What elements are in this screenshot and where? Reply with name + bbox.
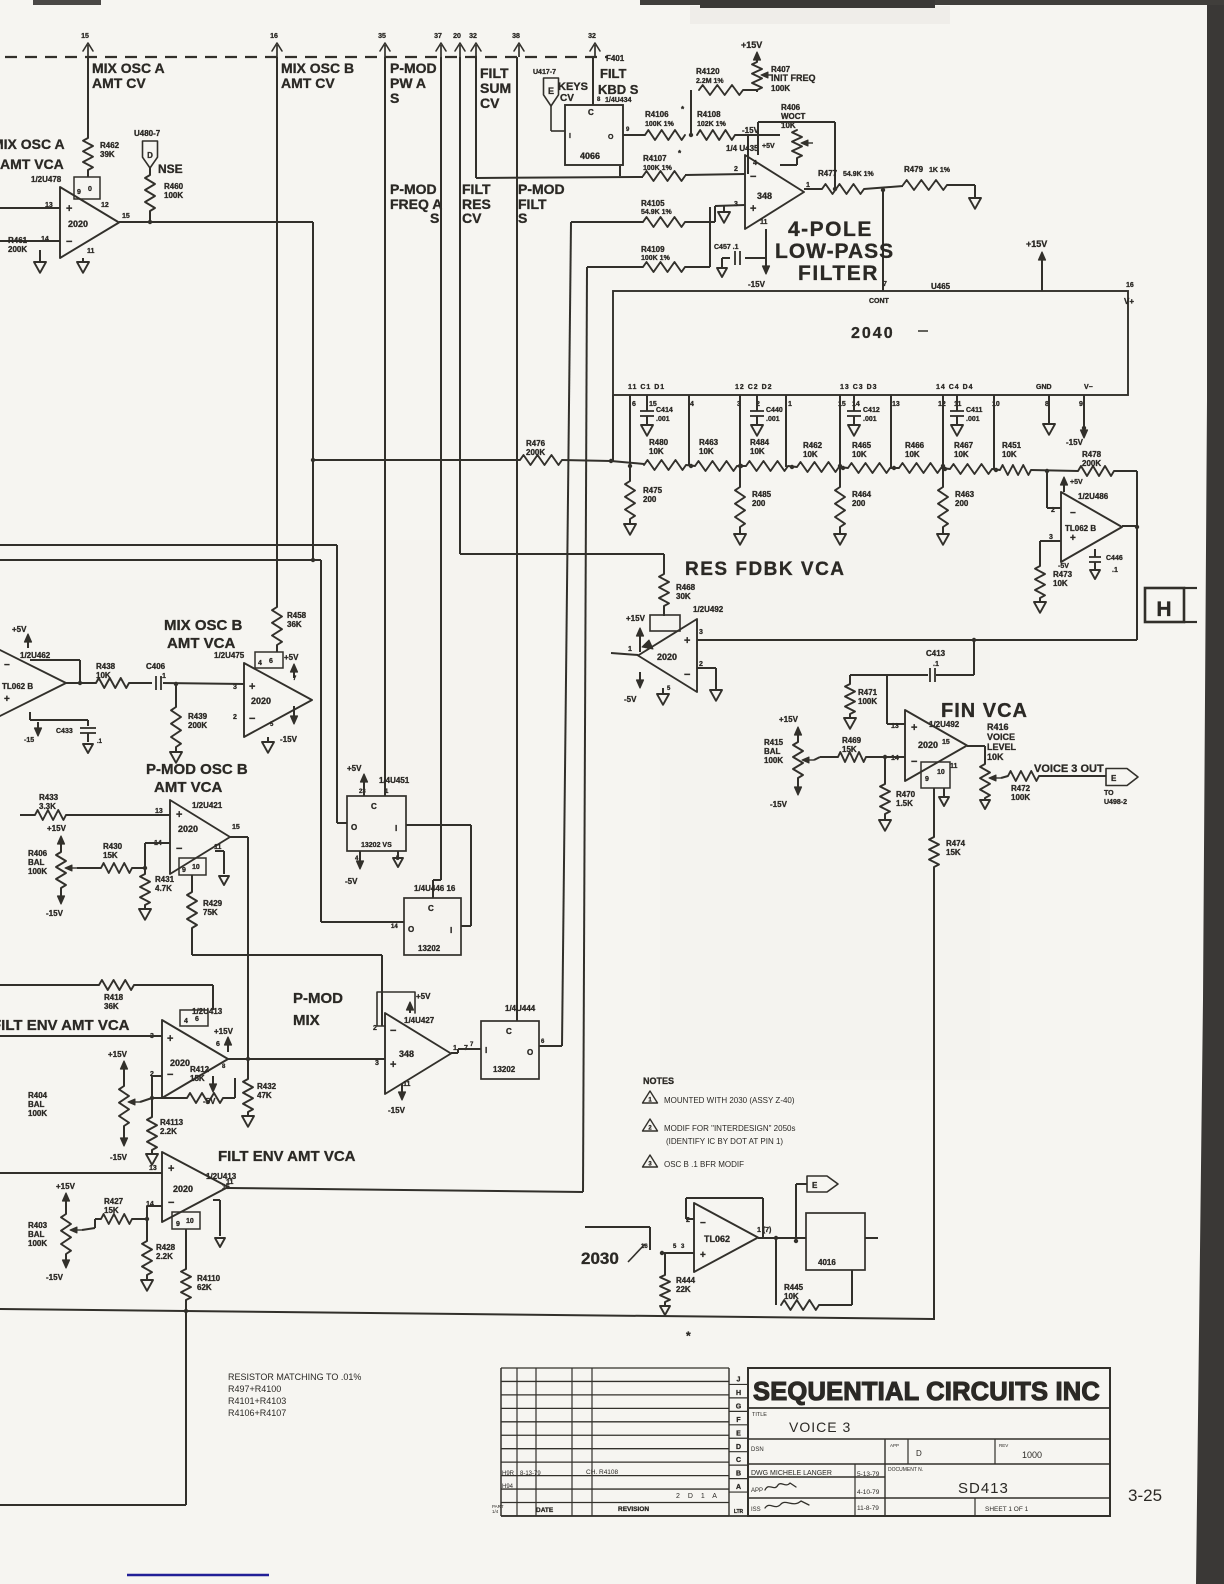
svg-text:R418: R418 bbox=[104, 993, 124, 1002]
svg-text:13: 13 bbox=[155, 808, 163, 815]
svg-text:P-MOD: P-MOD bbox=[518, 181, 565, 197]
svg-text:FILT: FILT bbox=[480, 65, 509, 81]
svg-text:D: D bbox=[916, 1449, 922, 1458]
svg-text:100K: 100K bbox=[858, 697, 877, 706]
svg-text:9: 9 bbox=[77, 189, 81, 196]
svg-text:13202 VS: 13202 VS bbox=[361, 842, 392, 849]
svg-text:1 (7): 1 (7) bbox=[757, 1227, 771, 1234]
svg-text:3-25: 3-25 bbox=[1128, 1486, 1162, 1505]
svg-text:C406: C406 bbox=[146, 662, 166, 671]
svg-text:100K: 100K bbox=[1011, 793, 1030, 802]
svg-text:38: 38 bbox=[512, 33, 520, 40]
svg-text:+: + bbox=[249, 681, 255, 693]
svg-text:OSC B .1 BFR MODIF: OSC B .1 BFR MODIF bbox=[664, 1160, 744, 1169]
svg-text:FIN VCA: FIN VCA bbox=[941, 700, 1028, 722]
svg-text:P-MOD: P-MOD bbox=[390, 60, 437, 76]
svg-text:0: 0 bbox=[88, 186, 92, 193]
svg-text:16: 16 bbox=[270, 33, 278, 40]
svg-text:11: 11 bbox=[87, 248, 95, 255]
svg-text:-15: -15 bbox=[24, 737, 34, 744]
svg-text:12 C2 D2: 12 C2 D2 bbox=[735, 384, 773, 391]
svg-text:MIX OSC A: MIX OSC A bbox=[92, 60, 165, 76]
svg-text:R430: R430 bbox=[103, 842, 123, 851]
svg-text:C: C bbox=[428, 904, 434, 913]
svg-text:+15V: +15V bbox=[741, 40, 762, 50]
svg-text:CV: CV bbox=[462, 210, 482, 226]
svg-text:+5V: +5V bbox=[284, 653, 299, 662]
svg-text:+5V: +5V bbox=[762, 143, 775, 150]
svg-text:5-13-79: 5-13-79 bbox=[857, 1471, 880, 1478]
svg-text:2040: 2040 bbox=[851, 325, 895, 342]
svg-text:DOCUMENT N.: DOCUMENT N. bbox=[888, 1467, 923, 1473]
svg-text:R462: R462 bbox=[803, 441, 823, 450]
svg-text:R4109: R4109 bbox=[641, 245, 665, 254]
svg-text:12: 12 bbox=[101, 202, 109, 209]
svg-text:CV: CV bbox=[560, 93, 574, 104]
svg-text:200: 200 bbox=[955, 499, 969, 508]
svg-text:11: 11 bbox=[760, 219, 768, 226]
svg-text:VOICE: VOICE bbox=[987, 732, 1015, 742]
svg-text:R406: R406 bbox=[28, 849, 48, 858]
svg-text:R467: R467 bbox=[954, 441, 974, 450]
svg-text:APP: APP bbox=[890, 1443, 899, 1448]
svg-text:+5V: +5V bbox=[416, 992, 431, 1001]
svg-text:3: 3 bbox=[375, 1060, 379, 1067]
svg-text:C: C bbox=[736, 1457, 741, 1464]
svg-text:1: 1 bbox=[788, 401, 792, 408]
svg-text:*: * bbox=[686, 1329, 691, 1343]
svg-text:I: I bbox=[450, 926, 452, 935]
svg-text:−: − bbox=[168, 1197, 174, 1209]
svg-text:R470: R470 bbox=[896, 790, 916, 799]
svg-text:6: 6 bbox=[269, 658, 273, 665]
svg-text:U498-2: U498-2 bbox=[1104, 799, 1127, 806]
svg-text:6: 6 bbox=[632, 401, 636, 408]
svg-text:8-13-79: 8-13-79 bbox=[520, 1471, 541, 1477]
svg-text:1/2U475: 1/2U475 bbox=[214, 651, 245, 660]
svg-text:1/4U427: 1/4U427 bbox=[404, 1016, 435, 1025]
svg-text:-5V: -5V bbox=[1058, 563, 1069, 570]
svg-text:.001: .001 bbox=[766, 416, 780, 423]
svg-text:R444: R444 bbox=[676, 1276, 696, 1285]
svg-text:2030: 2030 bbox=[581, 1249, 619, 1268]
svg-text:32: 32 bbox=[469, 33, 477, 40]
svg-text:F401: F401 bbox=[606, 54, 625, 63]
svg-text:23: 23 bbox=[359, 789, 366, 795]
svg-text:−: − bbox=[911, 756, 917, 768]
svg-text:4-POLE: 4-POLE bbox=[788, 218, 873, 241]
svg-text:O: O bbox=[527, 1048, 533, 1057]
svg-text:KBD S: KBD S bbox=[598, 82, 639, 97]
svg-text:2.2M 1%: 2.2M 1% bbox=[696, 78, 724, 85]
svg-text:3.3K: 3.3K bbox=[39, 802, 56, 811]
svg-text:H: H bbox=[1156, 598, 1171, 621]
svg-text:2020: 2020 bbox=[170, 1058, 190, 1068]
svg-text:LOW-PASS: LOW-PASS bbox=[775, 240, 894, 263]
svg-text:6: 6 bbox=[195, 1016, 199, 1023]
svg-text:R469: R469 bbox=[842, 736, 862, 745]
svg-text:14 C4 D4: 14 C4 D4 bbox=[936, 384, 974, 391]
svg-text:−: − bbox=[167, 1069, 173, 1081]
svg-text:PW A: PW A bbox=[390, 75, 426, 91]
svg-text:1: 1 bbox=[806, 182, 810, 189]
svg-text:2.2K: 2.2K bbox=[156, 1252, 173, 1261]
svg-text:1/4U434: 1/4U434 bbox=[605, 97, 632, 104]
svg-text:200: 200 bbox=[852, 499, 866, 508]
svg-text:1/4: 1/4 bbox=[492, 1509, 499, 1514]
svg-text:C440: C440 bbox=[766, 407, 783, 414]
svg-text:-5V: -5V bbox=[203, 1097, 216, 1106]
svg-text:2020: 2020 bbox=[657, 652, 677, 662]
svg-text:R473: R473 bbox=[1053, 570, 1073, 579]
svg-text:100K: 100K bbox=[771, 84, 790, 93]
svg-text:15K: 15K bbox=[190, 1074, 205, 1083]
svg-text:200K: 200K bbox=[526, 448, 545, 457]
svg-text:15K: 15K bbox=[946, 848, 961, 857]
svg-text:AMT CV: AMT CV bbox=[92, 75, 146, 91]
svg-text:.1: .1 bbox=[97, 739, 103, 745]
svg-text:+: + bbox=[167, 1033, 173, 1045]
svg-text:.001: .001 bbox=[656, 416, 670, 423]
svg-text:37: 37 bbox=[434, 33, 442, 40]
svg-text:A: A bbox=[736, 1484, 741, 1491]
svg-text:2020: 2020 bbox=[68, 219, 88, 229]
svg-text:10K: 10K bbox=[1053, 579, 1068, 588]
svg-text:4: 4 bbox=[690, 401, 694, 408]
svg-text:KEYS: KEYS bbox=[558, 81, 588, 93]
svg-text:54.9K 1%: 54.9K 1% bbox=[641, 209, 673, 216]
svg-text:NOTES: NOTES bbox=[643, 1076, 674, 1086]
svg-text:-15V: -15V bbox=[388, 1106, 406, 1115]
svg-text:FILT ENV AMT VCA: FILT ENV AMT VCA bbox=[0, 1017, 130, 1034]
svg-text:J: J bbox=[737, 1377, 741, 1384]
svg-text:35: 35 bbox=[378, 33, 386, 40]
svg-text:R403: R403 bbox=[28, 1221, 48, 1230]
svg-text:TO: TO bbox=[1104, 790, 1114, 797]
svg-text:36K: 36K bbox=[104, 1002, 119, 1011]
svg-text:−: − bbox=[684, 669, 690, 681]
svg-text:AMT CV: AMT CV bbox=[281, 75, 335, 91]
svg-text:6: 6 bbox=[216, 1041, 220, 1048]
svg-text:22K: 22K bbox=[676, 1285, 691, 1294]
svg-text:348: 348 bbox=[757, 191, 772, 201]
svg-text:H94: H94 bbox=[502, 1484, 514, 1490]
svg-text:10: 10 bbox=[186, 1218, 194, 1225]
svg-text:R468: R468 bbox=[676, 583, 696, 592]
svg-text:R416: R416 bbox=[987, 722, 1009, 732]
svg-text:9: 9 bbox=[182, 867, 186, 874]
svg-text:+: + bbox=[911, 722, 917, 734]
svg-text:O: O bbox=[351, 823, 357, 832]
svg-text:4: 4 bbox=[184, 1018, 188, 1025]
svg-text:VOICE 3 OUT: VOICE 3 OUT bbox=[1034, 763, 1104, 775]
svg-text:MOUNTED WITH 2030 (ASSY Z-40): MOUNTED WITH 2030 (ASSY Z-40) bbox=[664, 1096, 795, 1105]
svg-text:MIX: MIX bbox=[293, 1012, 320, 1029]
svg-text:R412: R412 bbox=[190, 1065, 210, 1074]
svg-text:R472: R472 bbox=[1011, 784, 1031, 793]
svg-text:4016: 4016 bbox=[818, 1258, 836, 1267]
svg-text:O: O bbox=[608, 134, 614, 141]
svg-text:FILT: FILT bbox=[600, 66, 627, 81]
svg-text:AMT VCA: AMT VCA bbox=[0, 156, 64, 172]
svg-text:200K: 200K bbox=[1082, 459, 1101, 468]
svg-text:APP: APP bbox=[751, 1488, 763, 1494]
svg-text:1/4U446 16: 1/4U446 16 bbox=[414, 884, 456, 893]
svg-text:R463: R463 bbox=[699, 438, 719, 447]
svg-text:MIX OSC B: MIX OSC B bbox=[164, 617, 243, 634]
svg-text:13: 13 bbox=[891, 723, 899, 730]
svg-text:R485: R485 bbox=[752, 490, 772, 499]
svg-text:R460: R460 bbox=[164, 182, 184, 191]
svg-text:-15V: -15V bbox=[46, 1273, 64, 1282]
svg-text:C: C bbox=[588, 108, 594, 117]
svg-text:+: + bbox=[176, 809, 182, 821]
svg-text:BAL: BAL bbox=[28, 858, 45, 867]
svg-text:2020: 2020 bbox=[251, 696, 271, 706]
svg-text:AMT VCA: AMT VCA bbox=[167, 635, 235, 652]
svg-text:11 C1 D1: 11 C1 D1 bbox=[628, 384, 665, 391]
svg-text:FILT: FILT bbox=[462, 181, 491, 197]
svg-text:3: 3 bbox=[1049, 534, 1053, 541]
svg-text:P-MOD OSC B: P-MOD OSC B bbox=[146, 761, 248, 778]
svg-text:100K: 100K bbox=[28, 1109, 47, 1118]
svg-text:R478: R478 bbox=[1082, 450, 1102, 459]
svg-text:SEQUENTIAL CIRCUITS INC: SEQUENTIAL CIRCUITS INC bbox=[753, 1378, 1100, 1406]
svg-text:S: S bbox=[430, 210, 439, 226]
svg-text:2020: 2020 bbox=[173, 1184, 193, 1194]
svg-text:2: 2 bbox=[734, 166, 738, 173]
svg-text:R4113: R4113 bbox=[160, 1118, 184, 1127]
svg-text:15K: 15K bbox=[104, 1206, 119, 1215]
svg-text:.1: .1 bbox=[933, 661, 939, 668]
svg-text:100K 1%: 100K 1% bbox=[641, 255, 671, 262]
svg-text:R4110: R4110 bbox=[197, 1274, 221, 1283]
svg-text:I: I bbox=[485, 1046, 487, 1055]
svg-text:11: 11 bbox=[950, 763, 958, 770]
svg-text:C457 .1: C457 .1 bbox=[714, 244, 739, 251]
svg-text:1000: 1000 bbox=[1022, 1450, 1042, 1460]
svg-text:BAL: BAL bbox=[28, 1230, 45, 1239]
svg-text:15: 15 bbox=[122, 213, 130, 220]
svg-text:13 C3 D3: 13 C3 D3 bbox=[840, 384, 878, 391]
svg-text:13202: 13202 bbox=[493, 1065, 516, 1074]
svg-text:36K: 36K bbox=[287, 620, 302, 629]
svg-text:−: − bbox=[1070, 508, 1076, 519]
svg-text:10K: 10K bbox=[750, 447, 765, 456]
svg-text:C: C bbox=[371, 802, 377, 811]
svg-text:75K: 75K bbox=[203, 908, 218, 917]
svg-text:2: 2 bbox=[699, 661, 703, 668]
svg-text:11: 11 bbox=[214, 844, 222, 851]
svg-text:32: 32 bbox=[588, 33, 596, 40]
svg-text:15: 15 bbox=[232, 824, 240, 831]
svg-text:R451: R451 bbox=[1002, 441, 1022, 450]
svg-text:2 D 1 A: 2 D 1 A bbox=[676, 1493, 720, 1500]
svg-text:U480-7: U480-7 bbox=[134, 129, 161, 138]
svg-text:4.7K: 4.7K bbox=[155, 884, 172, 893]
svg-text:1/2U462: 1/2U462 bbox=[20, 651, 51, 660]
svg-text:+: + bbox=[700, 1250, 706, 1261]
svg-text:U417-7: U417-7 bbox=[533, 69, 556, 76]
svg-text:+15V: +15V bbox=[214, 1027, 234, 1036]
svg-text:4: 4 bbox=[258, 660, 262, 667]
svg-text:R439: R439 bbox=[188, 712, 208, 721]
svg-text:DATE: DATE bbox=[536, 1507, 554, 1514]
svg-text:INIT FREQ: INIT FREQ bbox=[771, 73, 816, 83]
svg-text:TL062 B: TL062 B bbox=[2, 682, 33, 691]
svg-text:+: + bbox=[684, 635, 690, 647]
svg-text:I: I bbox=[569, 133, 571, 140]
svg-text:13: 13 bbox=[149, 1165, 157, 1172]
svg-text:E: E bbox=[548, 86, 554, 96]
svg-text:E: E bbox=[812, 1181, 818, 1190]
svg-text:TITLE: TITLE bbox=[752, 1412, 767, 1418]
svg-text:3: 3 bbox=[699, 629, 703, 636]
svg-text:-15V: -15V bbox=[1066, 438, 1084, 447]
svg-text:R427: R427 bbox=[104, 1197, 124, 1206]
svg-text:−: − bbox=[4, 660, 10, 671]
svg-text:R4101+R4103: R4101+R4103 bbox=[228, 1396, 286, 1406]
svg-text:-15V: -15V bbox=[280, 735, 298, 744]
svg-text:−: − bbox=[249, 713, 255, 725]
svg-text:30K: 30K bbox=[676, 592, 691, 601]
svg-text:+15V: +15V bbox=[626, 614, 646, 623]
svg-text:G: G bbox=[736, 1403, 742, 1410]
svg-text:.1: .1 bbox=[1112, 567, 1118, 574]
svg-text:54.9K 1%: 54.9K 1% bbox=[843, 171, 875, 178]
svg-text:R461: R461 bbox=[8, 236, 28, 245]
svg-text:16: 16 bbox=[641, 1244, 648, 1250]
svg-text:200K: 200K bbox=[188, 721, 207, 730]
svg-text:AMT VCA: AMT VCA bbox=[154, 779, 222, 796]
svg-text:+: + bbox=[390, 1059, 396, 1071]
svg-text:+: + bbox=[66, 203, 72, 215]
svg-text:-15V: -15V bbox=[110, 1153, 128, 1162]
svg-text:R415: R415 bbox=[764, 738, 784, 747]
svg-text:R475: R475 bbox=[643, 486, 663, 495]
svg-text:100K: 100K bbox=[164, 191, 183, 200]
svg-text:WOCT: WOCT bbox=[781, 112, 806, 121]
svg-text:CONT: CONT bbox=[869, 298, 890, 305]
svg-text:H9R: H9R bbox=[502, 1471, 515, 1477]
svg-text:10: 10 bbox=[937, 769, 945, 776]
svg-text:−: − bbox=[750, 171, 756, 183]
svg-text:R4120: R4120 bbox=[696, 67, 720, 76]
svg-text:+5V: +5V bbox=[12, 625, 27, 634]
svg-text:1/2U478: 1/2U478 bbox=[31, 175, 62, 184]
svg-text:200K: 200K bbox=[8, 245, 27, 254]
svg-text:12: 12 bbox=[938, 401, 946, 408]
svg-text:-5V: -5V bbox=[345, 877, 358, 886]
svg-text:LTR: LTR bbox=[734, 1509, 744, 1515]
svg-text:1/2U492: 1/2U492 bbox=[693, 605, 724, 614]
svg-text:SUM: SUM bbox=[480, 80, 511, 96]
svg-text:R432: R432 bbox=[257, 1082, 277, 1091]
svg-text:1/4 U435: 1/4 U435 bbox=[726, 144, 759, 153]
svg-text:15: 15 bbox=[942, 739, 950, 746]
svg-text:R4106+R4107: R4106+R4107 bbox=[228, 1408, 286, 1418]
svg-text:10K: 10K bbox=[96, 671, 111, 680]
svg-text:P-MOD: P-MOD bbox=[390, 181, 437, 197]
svg-text:−: − bbox=[66, 236, 72, 248]
svg-text:.001: .001 bbox=[966, 416, 980, 423]
svg-text:15K: 15K bbox=[103, 851, 118, 860]
svg-text:MIX OSC B: MIX OSC B bbox=[281, 60, 354, 76]
svg-text:−: − bbox=[700, 1218, 706, 1229]
svg-text:NSE: NSE bbox=[158, 162, 183, 176]
svg-text:R471: R471 bbox=[858, 688, 878, 697]
svg-text:TL062 B: TL062 B bbox=[1065, 524, 1096, 533]
svg-text:DSN: DSN bbox=[751, 1447, 764, 1453]
svg-text:11: 11 bbox=[226, 1179, 234, 1186]
svg-text:C: C bbox=[506, 1027, 512, 1036]
svg-text:-5V: -5V bbox=[624, 695, 637, 704]
svg-text:11: 11 bbox=[403, 1081, 411, 1088]
svg-text:20: 20 bbox=[453, 33, 461, 40]
svg-text:+15V: +15V bbox=[779, 715, 799, 724]
svg-text:-15V: -15V bbox=[46, 909, 64, 918]
svg-text:R4108: R4108 bbox=[697, 110, 721, 119]
svg-text:100K 1%: 100K 1% bbox=[643, 165, 673, 172]
svg-text:+15V: +15V bbox=[108, 1050, 128, 1059]
svg-text:R438: R438 bbox=[96, 662, 116, 671]
svg-text:BAL: BAL bbox=[764, 747, 781, 756]
svg-text:MODIF FOR "INTERDESIGN" 2050s: MODIF FOR "INTERDESIGN" 2050s bbox=[664, 1124, 795, 1133]
svg-text:.1: .1 bbox=[160, 673, 166, 680]
svg-text:10K: 10K bbox=[954, 450, 969, 459]
svg-text:CH. R4108: CH. R4108 bbox=[586, 1469, 619, 1476]
svg-text:V+: V+ bbox=[1124, 297, 1134, 306]
svg-text:B: B bbox=[736, 1471, 741, 1478]
svg-text:1/4U451: 1/4U451 bbox=[379, 776, 410, 785]
svg-text:C446: C446 bbox=[1106, 555, 1123, 562]
svg-text:V−: V− bbox=[1084, 384, 1093, 391]
svg-text:P-MOD: P-MOD bbox=[293, 990, 343, 1007]
svg-text:9: 9 bbox=[1079, 401, 1083, 408]
svg-text:E: E bbox=[1111, 774, 1117, 783]
svg-text:FILTER: FILTER bbox=[798, 262, 879, 285]
svg-text:1/2U421: 1/2U421 bbox=[192, 801, 223, 810]
svg-text:RESISTOR MATCHING TO .01%: RESISTOR MATCHING TO .01% bbox=[228, 1372, 361, 1382]
svg-text:S: S bbox=[390, 90, 399, 106]
svg-text:47K: 47K bbox=[257, 1091, 272, 1100]
svg-text:10K: 10K bbox=[699, 447, 714, 456]
svg-text:BAL: BAL bbox=[28, 1100, 45, 1109]
svg-text:1.5K: 1.5K bbox=[896, 799, 913, 808]
svg-text:R479: R479 bbox=[904, 165, 924, 174]
svg-text:C414: C414 bbox=[656, 407, 673, 414]
svg-text:R404: R404 bbox=[28, 1091, 48, 1100]
svg-text:+5V: +5V bbox=[1070, 479, 1083, 486]
svg-text:348: 348 bbox=[399, 1049, 414, 1059]
svg-text:11-8-79: 11-8-79 bbox=[857, 1505, 879, 1512]
svg-text:100K: 100K bbox=[28, 867, 47, 876]
svg-text:10K: 10K bbox=[1002, 450, 1017, 459]
svg-text:LEVEL: LEVEL bbox=[987, 742, 1017, 752]
svg-text:+: + bbox=[750, 203, 756, 215]
svg-text:2020: 2020 bbox=[178, 824, 198, 834]
svg-text:1: 1 bbox=[453, 1045, 457, 1052]
svg-text:C411: C411 bbox=[966, 407, 982, 414]
svg-text:R477: R477 bbox=[818, 169, 838, 178]
svg-text:10K: 10K bbox=[987, 752, 1004, 762]
svg-text:+: + bbox=[1070, 533, 1076, 544]
svg-text:+15V: +15V bbox=[1026, 239, 1047, 249]
svg-text:−: − bbox=[390, 1025, 396, 1037]
svg-text:15K: 15K bbox=[842, 745, 857, 754]
svg-text:+: + bbox=[4, 694, 10, 705]
svg-text:4-10-79: 4-10-79 bbox=[857, 1489, 880, 1496]
